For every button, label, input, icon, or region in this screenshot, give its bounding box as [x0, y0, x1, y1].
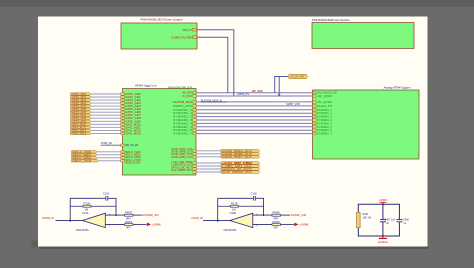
resistor R11B 1M — [70, 202, 116, 212]
wire — [97, 157, 121, 159]
port GPIO_AD7 — [71, 114, 92, 117]
wire feedback top rail b — [256, 198, 264, 215]
svg-text:GPIO_AD13: GPIO_AD13 — [125, 132, 141, 135]
sheet entry SPLC_MSK — [121, 157, 124, 159]
svg-text:C408: C408 — [403, 218, 409, 221]
wire — [91, 123, 121, 125]
capacitor C407 — [380, 218, 396, 225]
wire — [196, 133, 313, 135]
sheet entry C SYSRADC_6 — [173, 129, 196, 132]
sheet symbol U_GUSHW — [312, 18, 414, 49]
port +3V3_RF_PWR — [288, 74, 308, 78]
svg-text:10K 1%: 10K 1% — [363, 216, 373, 219]
wire — [91, 111, 121, 113]
net label PLATXM_MQ3_W — [201, 98, 227, 102]
wire — [196, 92, 313, 94]
sheet entry GPIO_AD9 — [121, 120, 142, 123]
sheet entry D -W_QVD — [313, 95, 333, 98]
svg-text:SWNT_ATN: SWNT_ATN — [286, 103, 300, 106]
resistor RW03 4R7 — [125, 211, 134, 221]
svg-text:SPLC_CSN: SPLC_CSN — [72, 160, 91, 163]
junction — [382, 235, 384, 237]
port SLAP_WMMW_WVV — [221, 171, 260, 174]
svg-text:-W_QVD2: -W_QVD2 — [182, 95, 193, 98]
sheet entry GPIO_AD6 — [121, 111, 142, 114]
wire — [97, 154, 121, 156]
svg-text:SWNT_ATN: SWNT_ATN — [173, 105, 192, 108]
sheet entry D SYSRADC_6 — [313, 129, 333, 132]
capacitor C102 — [251, 191, 258, 200]
sheet entry VDD_IN — [183, 28, 197, 32]
wire output — [133, 214, 143, 216]
wire — [196, 153, 221, 155]
port GPIO_AD6 — [71, 111, 92, 114]
svg-text:VDD_IN: VDD_IN — [183, 28, 192, 32]
wire feedback vertical — [69, 198, 71, 220]
sheet entry SPLC_MZI — [121, 151, 124, 153]
wire loop — [358, 204, 399, 219]
resistor R401 10K — [357, 212, 373, 227]
wire — [196, 156, 221, 158]
sheet symbol U_PSU power supply — [121, 18, 197, 49]
svg-text:OPA1678A: OPA1678A — [224, 228, 237, 232]
svg-text:Analog ATM4 Uggum: Analog ATM4 Uggum — [383, 85, 412, 89]
wire — [196, 165, 221, 167]
sheet entry GPIO_AD4 — [121, 105, 142, 108]
power port +1V8W — [147, 223, 161, 227]
port GPIO_AD9 — [71, 120, 92, 123]
wire — [275, 77, 288, 93]
sheet entry C PLATXM_MQ3 — [173, 101, 196, 104]
sheet entry +3V3BAT_PS_PWR — [171, 35, 197, 39]
svg-text:R11B: R11B — [84, 202, 91, 206]
capacitor C101 — [103, 191, 110, 200]
svg-text:OPA1678A: OPA1678A — [76, 228, 89, 232]
port SPLC_MSK — [72, 157, 98, 160]
wire — [91, 114, 121, 116]
wire — [196, 129, 313, 131]
wire — [91, 105, 121, 107]
wire — [196, 126, 313, 128]
ground GNDA — [378, 236, 388, 244]
wire — [196, 122, 313, 124]
wire lower b — [281, 223, 295, 225]
svg-text:SLAP_WMMW_WVV: SLAP_WMMW_WVV — [171, 169, 192, 172]
port GPIO_AD3 — [71, 102, 92, 105]
port GPIO_AD5 — [71, 108, 92, 111]
sheet entry GATM_WMA_OUT — [193, 150, 196, 152]
wire output top — [253, 214, 272, 216]
junction — [69, 220, 71, 222]
sheet entry GPIO_AD8 — [121, 117, 142, 120]
wire — [91, 99, 121, 101]
svg-text:4R7: 4R7 — [274, 226, 279, 230]
port GPIO_AD11 — [71, 126, 92, 129]
wire loop bottom — [358, 222, 399, 236]
svg-text:U14A: U14A — [82, 211, 89, 215]
wire — [196, 112, 313, 114]
wire — [91, 132, 121, 134]
wire feedback top rail — [218, 197, 253, 199]
wire input — [203, 220, 230, 222]
wire output — [281, 214, 291, 216]
sheet entry C SYSRADC_4 — [173, 122, 196, 125]
wire feedback vertical — [217, 198, 219, 220]
sheet entry C SWNT_ATN — [173, 105, 196, 108]
op-amp U14A — [76, 211, 111, 232]
wire — [196, 101, 313, 103]
schematic sheet — [38, 17, 428, 247]
resistor RW06 4R7 — [272, 220, 281, 230]
svg-text:RF_KVL: RF_KVL — [252, 89, 263, 93]
sheet symbol U_ANALOG — [313, 85, 420, 159]
wire — [91, 120, 121, 122]
sheet entry SPI_AN_WL — [121, 144, 139, 147]
port GPIO3_W_OUT — [221, 168, 260, 171]
port I_GBA_MZ1_OUT — [221, 165, 260, 168]
sheet entry D SYSRADC_4 — [313, 122, 333, 125]
port GPIO_AD10 — [71, 123, 92, 126]
port SPLC_MZI — [72, 151, 98, 154]
wire — [196, 109, 313, 111]
port GPIO_AD4 — [71, 105, 92, 108]
svg-text:RW03: RW03 — [125, 211, 133, 215]
wire — [97, 151, 121, 153]
sheet entry D SYSRADC_0 — [313, 109, 333, 112]
port GATM_WMB_OUT — [221, 153, 260, 156]
capacitor C408 — [396, 218, 409, 225]
svg-text:SLAP_WMMW_WVV: SLAP_WMMW_WVV — [222, 171, 253, 174]
sheet entry GPIO_AD5 — [121, 108, 142, 111]
corner artifact — [32, 241, 39, 248]
junction — [382, 203, 384, 205]
port GATM_WMC_OUT — [221, 156, 260, 159]
wire — [196, 105, 313, 107]
sheet entry D +3V3_ANALOG_VDD — [313, 92, 337, 95]
sheet entry I_GBA_MZ1_OUT — [193, 165, 196, 167]
wire — [196, 95, 313, 97]
sheet entry GATM_WMB_OUT — [193, 153, 196, 155]
page shadow — [40, 247, 429, 250]
sheet entry D SYSRADC_7 — [313, 132, 333, 135]
svg-text:PLATXM_MQ3: PLATXM_MQ3 — [173, 101, 193, 104]
sheet entry SPLC_CSN — [121, 160, 124, 162]
sheet entry GPIO_AD10 — [121, 123, 142, 126]
svg-text:AVDD_PS: AVDD_PS — [237, 93, 249, 96]
svg-text:C407 1u0: C407 1u0 — [385, 218, 396, 221]
svg-text:PGSW_AN: PGSW_AN — [143, 213, 159, 217]
junction — [263, 214, 265, 216]
svg-text:ATM4_WL: ATM4_WL — [101, 142, 113, 145]
svg-text:PMU4/DRGM4LDUP: PMU4/DRGM4LDUP — [168, 85, 192, 89]
resistor R12B 1M — [218, 202, 264, 212]
svg-text:ATM4 Ugg2 u-w: ATM4 Ugg2 u-w — [135, 84, 157, 88]
svg-text:Guard_TN: Guard_TN — [317, 105, 332, 108]
port GPIO_AD8 — [71, 117, 92, 120]
sheet entry GPIO_AD0 — [121, 93, 142, 96]
sheet entry GPIO_AD11 — [121, 126, 142, 129]
wire — [196, 119, 313, 121]
svg-text:+3.3VBAT_PS_PWR: +3.3VBAT_PS_PWR — [171, 35, 192, 39]
resistor RW05 4R7 — [272, 211, 281, 221]
sheet entry GATM_WMC_OUT — [193, 156, 196, 158]
wire — [91, 117, 121, 119]
sheet symbol U_MCU — [123, 84, 197, 176]
svg-text:RW06: RW06 — [273, 220, 281, 224]
sheet entry C SYSRADC_2 — [173, 115, 196, 118]
power port +1V8W — [294, 223, 308, 227]
wire — [196, 150, 221, 152]
port GPIO_AD12 — [71, 129, 92, 132]
wire VDD_IN to AVDD_PS net — [197, 30, 234, 96]
sheet entry GPIO_AD3 — [121, 102, 142, 105]
wire — [91, 126, 121, 128]
svg-text:C102: C102 — [251, 191, 258, 195]
sheet entry C -W_QVD — [182, 92, 196, 95]
port GPIO_AD13 — [71, 132, 92, 135]
wire feedback top rail b — [108, 198, 116, 215]
sheet entry C SYSRADC_5 — [173, 126, 196, 129]
svg-text:U14B: U14B — [230, 211, 237, 215]
wire — [91, 129, 121, 131]
wire center — [382, 204, 384, 219]
sheet entry GPIO_AD12 — [121, 129, 142, 132]
svg-text:4R7: 4R7 — [126, 216, 131, 220]
wire — [278, 77, 280, 96]
power port +VBAT — [379, 198, 388, 204]
svg-text:+3V3_RF_PWR: +3V3_RF_PWR — [290, 75, 305, 78]
wire — [91, 108, 121, 110]
svg-text:GATM_WMC_OUT: GATM_WMC_OUT — [222, 156, 253, 159]
svg-text:MZAN_CLOCK: MZAN_CLOCK — [125, 162, 141, 165]
port SPLC_CSN — [72, 160, 99, 163]
sheet entry GPIO_AD13 — [121, 132, 142, 135]
sheet entry GPIO_AD2 — [121, 99, 142, 102]
sheet entry C SYSRADC_3 — [173, 119, 196, 122]
svg-text:+1V8W: +1V8W — [152, 223, 162, 227]
svg-text:-W_QVD2: -W_QVD2 — [317, 101, 333, 104]
top toolbar band — [0, 0, 474, 7]
sheet entry SPLC_MZO — [121, 154, 124, 156]
svg-text:SYSRADC_7: SYSRADC_7 — [173, 133, 193, 136]
wire — [91, 102, 121, 104]
wire — [91, 93, 121, 95]
wire lower — [253, 223, 272, 225]
svg-text:1M: 1M — [232, 207, 236, 211]
junction — [278, 94, 281, 96]
svg-text:+1V8W: +1V8W — [299, 223, 309, 227]
port GPIO_AD2 — [71, 99, 92, 102]
svg-text:RW04: RW04 — [125, 220, 133, 224]
sheet entry GPIO_AD7 — [121, 114, 142, 117]
wire — [196, 171, 221, 173]
wire — [99, 160, 122, 162]
wire — [91, 96, 121, 98]
sheet entry D Guard_TN — [313, 105, 333, 108]
svg-text:SYSRADC_7: SYSRADC_7 — [317, 133, 333, 136]
wire feedback top rail — [70, 197, 105, 199]
sheet entry C SYSRADC_0 — [173, 109, 196, 112]
wire — [196, 162, 221, 164]
svg-text:PMU4/DRGM4P-wlc Gushw: PMU4/DRGM4P-wlc Gushw — [312, 18, 350, 22]
wire — [196, 168, 221, 170]
sheet entry GPIO_AD1 — [121, 96, 142, 99]
svg-text:GPIO_AD13: GPIO_AD13 — [72, 132, 87, 135]
sheet entry SLAP_WMMW_WVV — [193, 171, 196, 173]
sheet entry D SYSRADC_3 — [313, 119, 333, 122]
svg-text:IGCW_IN: IGCW_IN — [192, 216, 203, 220]
svg-text:4R7: 4R7 — [274, 216, 279, 220]
svg-text:GATM_WMD_OUT: GATM_WMD_OUT — [171, 156, 193, 159]
junction — [115, 214, 117, 216]
svg-text:-W_QVD: -W_QVD — [317, 95, 332, 98]
wire — [101, 144, 121, 146]
svg-text:SPI_AN_WL: SPI_AN_WL — [125, 144, 139, 147]
resistor RW04 4R7 — [125, 220, 134, 230]
port GPIO_AD1 — [71, 96, 92, 99]
sheet entry D SYSRADC_1 — [313, 112, 333, 115]
wire +3V3BAT to RF_KVL net — [197, 37, 228, 92]
svg-text:IGNTR_IN: IGNTR_IN — [42, 216, 54, 220]
port +3.3V_MW_PWR — [221, 162, 260, 165]
wire — [196, 116, 313, 118]
svg-text:C101: C101 — [103, 191, 110, 195]
svg-text:1M: 1M — [85, 207, 89, 211]
sheet entry C SYSRADC_7 — [173, 132, 196, 135]
port SPLC_MZO — [72, 154, 98, 157]
wire center b — [382, 222, 384, 236]
svg-text:PLATXM_MQ3_W: PLATXM_MQ3_W — [201, 98, 223, 102]
op-amp U14B — [224, 211, 259, 232]
svg-text:PMU4/WB1UE3 Power Supply: PMU4/WB1UE3 Power Supply — [141, 18, 184, 22]
junction — [217, 220, 219, 222]
svg-text:4R7: 4R7 — [126, 226, 131, 230]
wire lower — [105, 223, 124, 225]
svg-text:IGSW_AN: IGSW_AN — [291, 213, 307, 217]
svg-text:RW05: RW05 — [273, 211, 281, 215]
wire lower b — [133, 223, 147, 225]
svg-text:+VBAT: +VBAT — [379, 198, 388, 202]
sheet entry D SYSRADC_5 — [313, 126, 333, 129]
sheet entry +3.3V_MW_PWR — [193, 162, 196, 164]
sheet entry D SYSRADC_2 — [313, 115, 333, 118]
sheet entry C SYSRADC_1 — [173, 112, 196, 115]
sheet entry D -W_QVD2 — [313, 101, 333, 104]
wire output top — [105, 214, 124, 216]
sheet entry GPIO3_W_OUT — [193, 168, 196, 170]
sheet entry C -W_QVD2 — [182, 95, 196, 98]
svg-text:R12B: R12B — [231, 202, 238, 206]
port GPIO_AD0 — [71, 93, 92, 96]
port GATM_WMA_OUT — [221, 150, 260, 153]
wire input — [56, 220, 83, 222]
svg-text:AGND-A: AGND-A — [378, 240, 388, 244]
